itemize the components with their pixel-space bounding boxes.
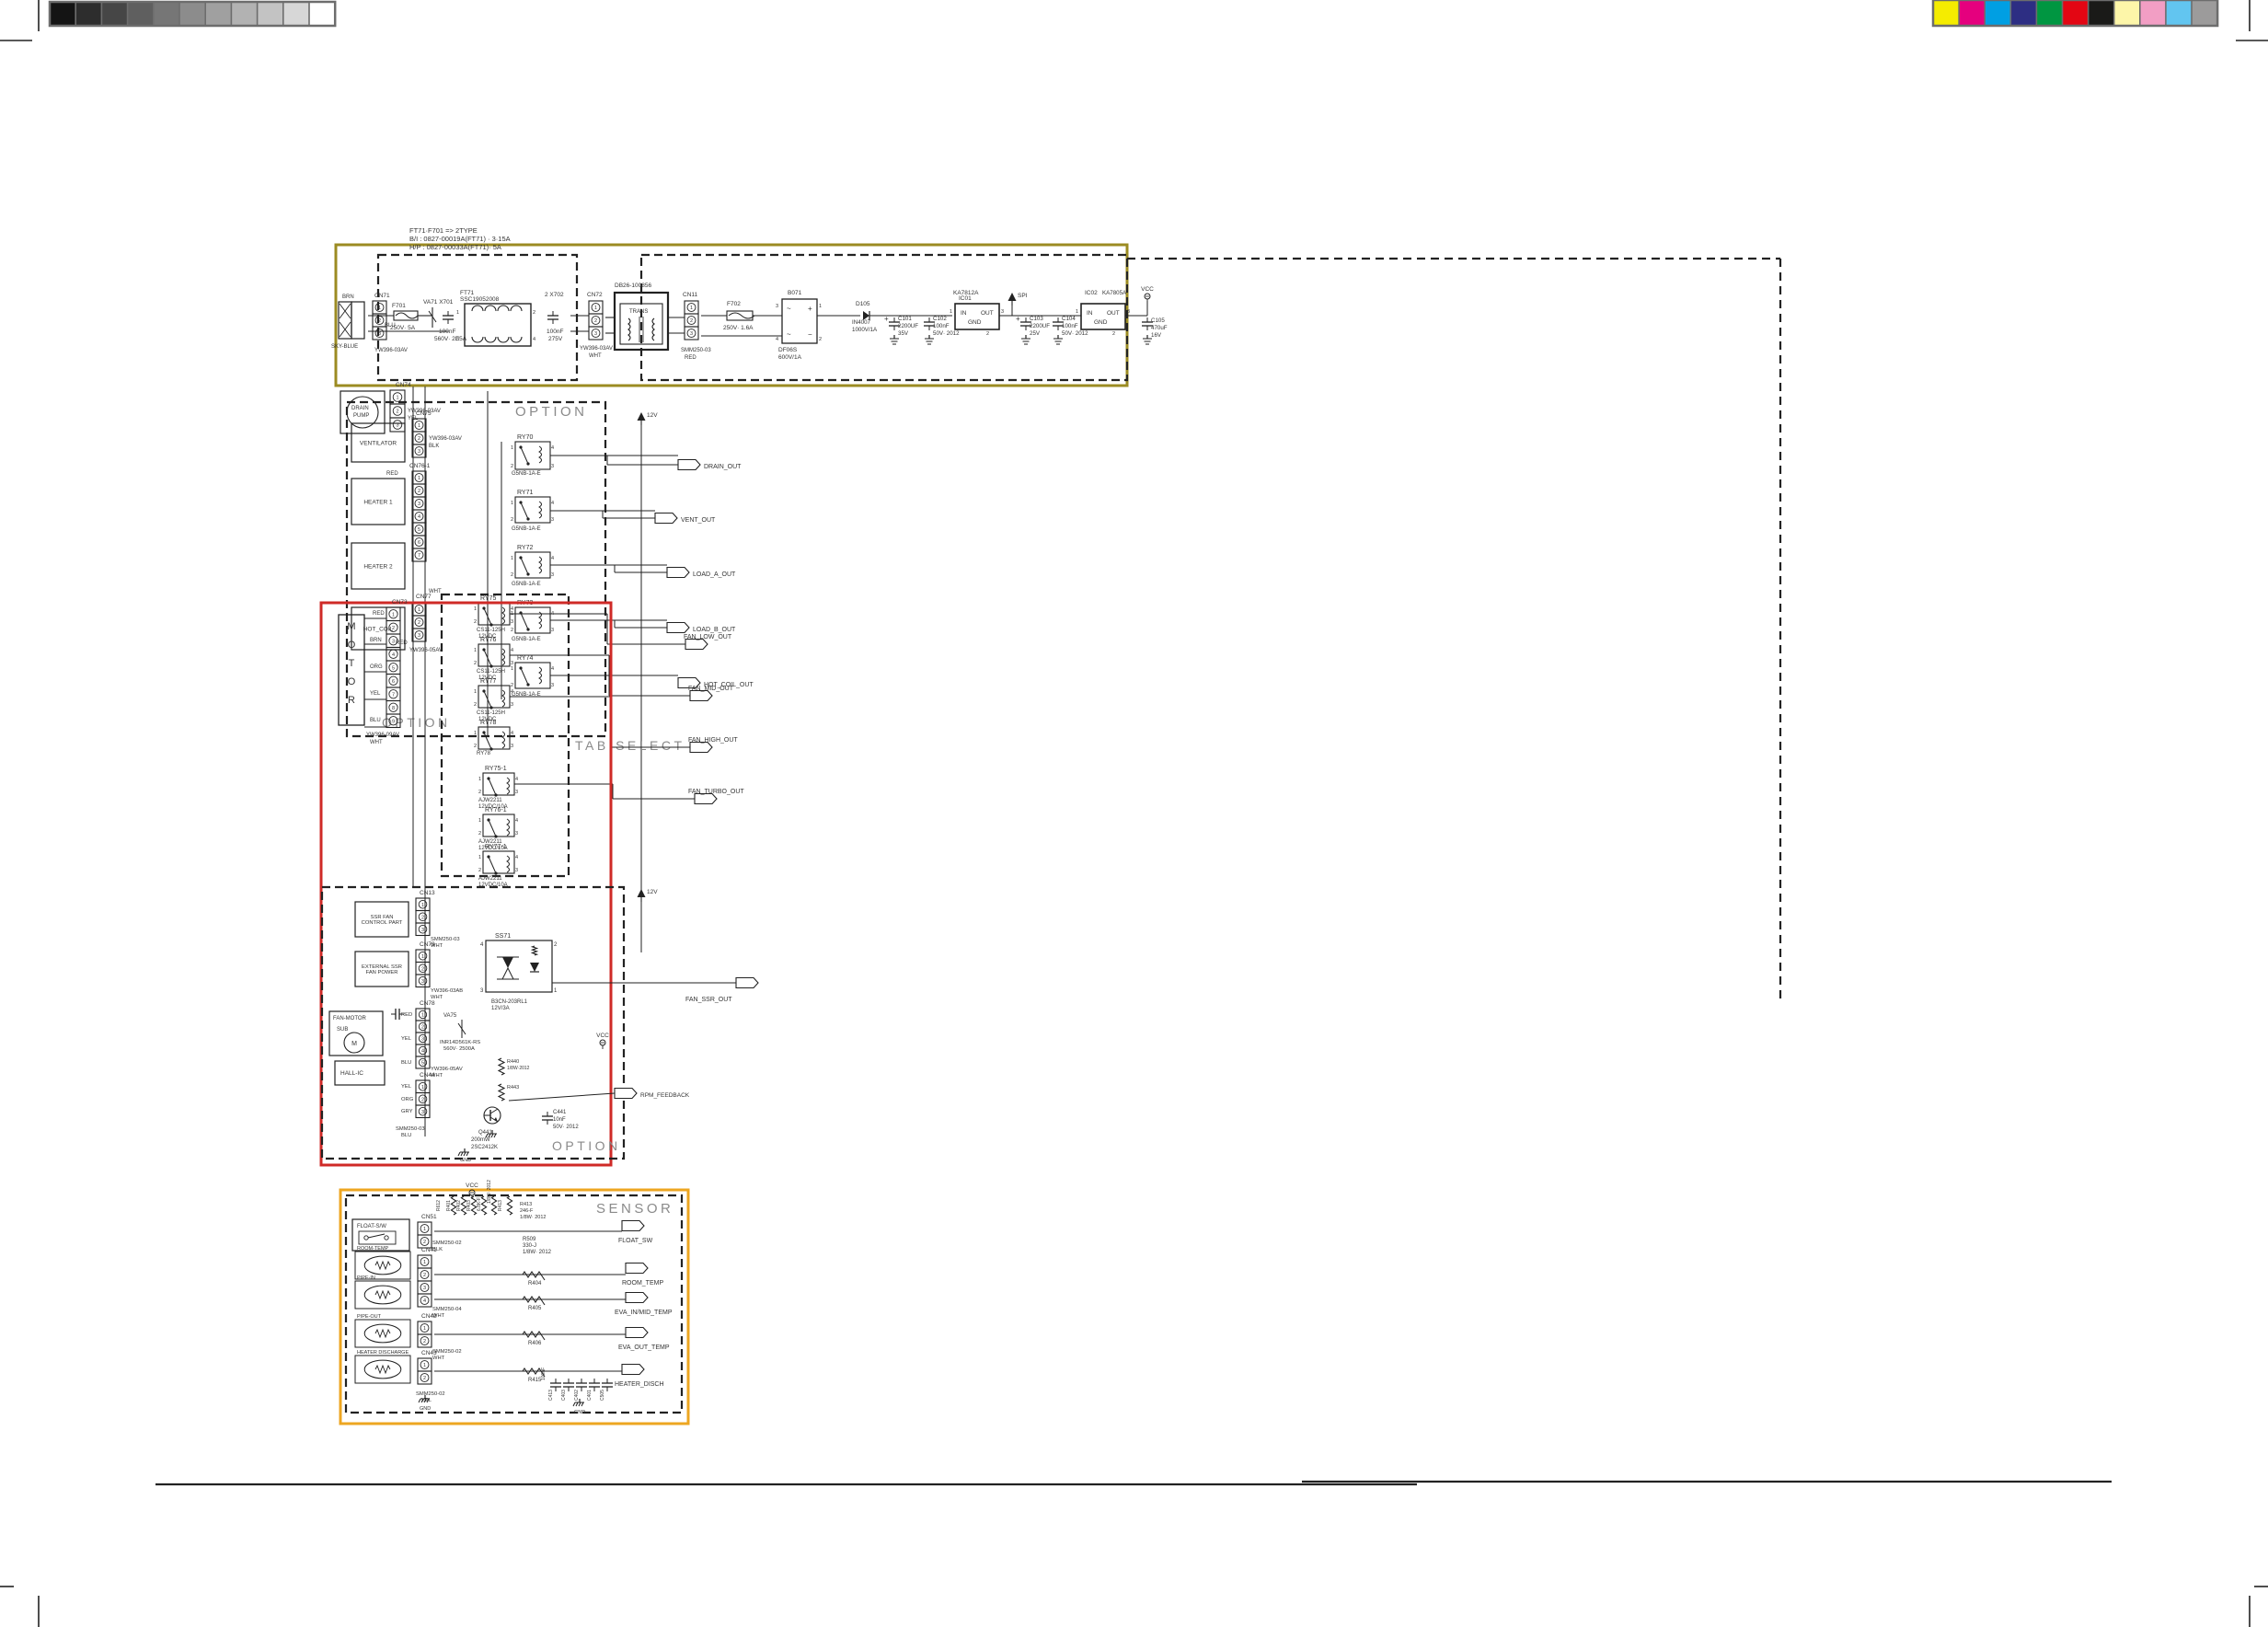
svg-text:4: 4 — [533, 337, 535, 342]
optocoupler SS71 — [486, 940, 552, 992]
svg-text:1/8W·2012: 1/8W·2012 — [507, 1066, 530, 1071]
svg-text:CN79: CN79 — [420, 941, 435, 948]
svg-text:LOAD_A_OUT: LOAD_A_OUT — [693, 571, 736, 578]
svg-text:1: 1 — [1076, 309, 1078, 315]
svg-text:1: 1 — [418, 423, 420, 429]
regulator IC02 KA7805A — [1081, 304, 1125, 329]
svg-text:5: 5 — [421, 1061, 424, 1067]
svg-text:C441: C441 — [553, 1110, 567, 1115]
flag LOAD_A_OUT — [667, 568, 689, 578]
svg-text:2: 2 — [511, 683, 513, 688]
svg-text:YW396-03AB: YW396-03AB — [431, 988, 463, 994]
transformer DB26-100856 — [615, 293, 668, 350]
svg-text:FAN_MID_OUT: FAN_MID_OUT — [688, 686, 734, 692]
svg-text:SMM250-04: SMM250-04 — [432, 1307, 462, 1312]
svg-text:T: T — [349, 658, 355, 669]
drain pump box — [340, 391, 385, 433]
svg-text:3: 3 — [511, 702, 513, 708]
svg-text:R509: R509 — [523, 1237, 536, 1242]
svg-text:WHT: WHT — [429, 589, 442, 594]
svg-text:C505: C505 — [600, 1390, 605, 1401]
svg-text:RY71: RY71 — [517, 490, 533, 496]
thermistor PIPE-IN — [355, 1281, 410, 1309]
svg-text:GND: GND — [574, 1410, 585, 1415]
svg-text:OPTION: OPTION — [515, 404, 588, 420]
svg-text:12V/3A: 12V/3A — [491, 1006, 510, 1011]
svg-text:50V· 2012: 50V· 2012 — [933, 330, 960, 337]
svg-text:3: 3 — [1127, 309, 1130, 315]
svg-text:PUMP: PUMP — [353, 413, 369, 419]
svg-text:HALL-IC: HALL-IC — [340, 1070, 363, 1077]
svg-text:HEATER_DISCH: HEATER_DISCH — [615, 1381, 664, 1388]
svg-text:2: 2 — [418, 620, 420, 626]
svg-text:4: 4 — [551, 501, 554, 506]
svg-text:5: 5 — [392, 665, 395, 671]
color calibration bar — [1933, 0, 1959, 26]
svg-text:VCC: VCC — [596, 1033, 609, 1039]
svg-text:CN13: CN13 — [420, 890, 435, 896]
svg-text:3: 3 — [551, 572, 554, 578]
ground q441 — [464, 1148, 466, 1152]
resistor R404 — [523, 1272, 545, 1280]
svg-text:M: M — [347, 621, 355, 632]
svg-text:35V: 35V — [898, 330, 909, 337]
svg-text:2: 2 — [478, 868, 481, 873]
flag VENT_OUT — [655, 513, 677, 524]
svg-text:RY70: RY70 — [517, 434, 533, 441]
svg-text:3: 3 — [515, 790, 518, 795]
resistor R415 — [523, 1368, 545, 1377]
svg-text:SSC19052008: SSC19052008 — [460, 296, 500, 303]
svg-text:2: 2 — [474, 744, 477, 749]
svg-text:VA75: VA75 — [443, 1013, 457, 1019]
flag FAN_MID_OUT — [690, 691, 712, 701]
capacitor C101 — [893, 317, 895, 322]
svg-text:FAN-MOTOR: FAN-MOTOR — [333, 1016, 367, 1021]
bridge rectifier B071 — [782, 299, 817, 343]
wire bus CN75 column — [412, 387, 414, 888]
relay RY78 — [478, 727, 510, 749]
capacitor C104 — [1057, 317, 1059, 322]
svg-text:VCC: VCC — [1141, 286, 1154, 293]
svg-text:CS11-125H: CS11-125H — [477, 628, 505, 633]
svg-text:600V/1A: 600V/1A — [778, 354, 802, 361]
svg-text:ROOM_TEMP: ROOM_TEMP — [622, 1280, 663, 1287]
capacitor C102 — [928, 317, 930, 322]
svg-text:3: 3 — [421, 979, 424, 985]
svg-text:2: 2 — [511, 572, 513, 578]
svg-text:VENT_OUT: VENT_OUT — [681, 517, 716, 524]
svg-text:2: 2 — [423, 1273, 426, 1278]
svg-text:B3CN-203RL1: B3CN-203RL1 — [491, 999, 528, 1005]
capacitor fan — [391, 1013, 396, 1015]
svg-text:EVA_OUT_TEMP: EVA_OUT_TEMP — [618, 1344, 670, 1351]
svg-text:CS11-125H: CS11-125H — [477, 710, 505, 716]
svg-text:CN71: CN71 — [374, 293, 390, 299]
relay RY76 — [478, 644, 510, 666]
svg-text:1: 1 — [421, 1013, 424, 1019]
svg-text:3: 3 — [378, 331, 381, 337]
svg-text:R612: R612 — [436, 1200, 442, 1211]
svg-text:246-F: 246-F — [520, 1208, 534, 1214]
svg-text:B/I : 0827-00019A(FT71) · 3·15: B/I : 0827-00019A(FT71) · 3·15A — [409, 235, 511, 243]
flag ROOM_TEMP — [626, 1264, 648, 1274]
svg-text:1: 1 — [511, 501, 513, 506]
svg-text:GRY: GRY — [401, 1109, 413, 1114]
svg-text:250V· 5A: 250V· 5A — [390, 325, 416, 331]
svg-text:1: 1 — [423, 1326, 426, 1332]
svg-text:1/8W· 2012: 1/8W· 2012 — [487, 1180, 492, 1204]
wire power rail — [368, 315, 394, 317]
box EXTERNAL SSR FAN POWER — [355, 952, 409, 987]
svg-text:R413: R413 — [520, 1202, 532, 1207]
connector CN51 — [418, 1222, 432, 1235]
svg-text:1: 1 — [423, 1227, 426, 1232]
connector CN79 — [416, 950, 430, 963]
svg-text:250V· 1.6A: 250V· 1.6A — [723, 325, 754, 331]
svg-text:O: O — [348, 676, 356, 687]
svg-text:2: 2 — [474, 619, 477, 625]
svg-text:25V: 25V — [1030, 330, 1041, 337]
svg-text:CN44: CN44 — [420, 1072, 435, 1079]
svg-text:FAN_TURBO_OUT: FAN_TURBO_OUT — [688, 789, 744, 795]
svg-text:YW396-03AV: YW396-03AV — [429, 436, 462, 442]
svg-text:4: 4 — [392, 652, 395, 658]
svg-text:2: 2 — [418, 489, 420, 494]
capacitor C441 — [547, 1112, 548, 1116]
svg-text:R403: R403 — [466, 1200, 472, 1211]
svg-text:HEATER DISCHARGE: HEATER DISCHARGE — [357, 1350, 409, 1356]
svg-text:RY74: RY74 — [517, 655, 533, 662]
connector CN78 — [416, 1009, 430, 1021]
svg-text:CN77: CN77 — [416, 594, 432, 600]
varistor VA71 — [432, 307, 433, 328]
TAB SELECT dashed box — [442, 594, 569, 876]
flag HOT_COIL_OUT — [678, 678, 700, 688]
flag DRAIN_OUT — [678, 460, 700, 470]
svg-text:PIPE-OUT: PIPE-OUT — [357, 1314, 382, 1320]
svg-text:RY76-1: RY76-1 — [485, 807, 507, 813]
svg-text:SKY-BLUE: SKY-BLUE — [331, 344, 358, 350]
svg-text:4: 4 — [551, 556, 554, 561]
svg-text:G5NB-1A-E: G5NB-1A-E — [512, 471, 541, 477]
relay RY75 — [478, 603, 510, 625]
svg-text:3: 3 — [421, 1037, 424, 1043]
svg-text:1: 1 — [511, 666, 513, 672]
svg-text:2: 2 — [511, 628, 513, 633]
fuse F702 — [727, 311, 753, 320]
capacitor X702 — [552, 311, 554, 316]
svg-text:3: 3 — [418, 449, 420, 455]
svg-text:50V· 2012: 50V· 2012 — [1062, 330, 1088, 337]
svg-text:CN78: CN78 — [420, 1000, 435, 1007]
relay RY71 — [515, 497, 550, 523]
svg-text:560V· 2E5A: 560V· 2E5A — [434, 336, 467, 342]
diode D105 — [863, 311, 869, 320]
svg-text:12V: 12V — [647, 412, 658, 419]
svg-text:C413: C413 — [548, 1390, 554, 1401]
svg-text:H/P : 0827-00033A(FT71)· 5A: H/P : 0827-00033A(FT71)· 5A — [409, 243, 501, 251]
svg-text:YW396-03AV: YW396-03AV — [580, 346, 613, 352]
flag FAN_HIGH_OUT — [690, 743, 712, 753]
svg-text:YEL: YEL — [401, 1036, 412, 1042]
12V arrow SPI — [1008, 293, 1017, 301]
bottom horizontal rule — [155, 1483, 1417, 1485]
flag HEATER_DISCH — [622, 1365, 644, 1375]
svg-text:4: 4 — [511, 731, 513, 736]
SENSOR section orange box — [340, 1190, 688, 1424]
12V rail vertical — [640, 425, 642, 952]
svg-text:R401: R401 — [446, 1200, 452, 1211]
svg-text:BRN: BRN — [370, 638, 382, 643]
ground sensor — [579, 1399, 581, 1402]
line filter FT71 — [465, 304, 531, 346]
svg-text:CS11-125H: CS11-125H — [477, 669, 505, 675]
svg-text:1: 1 — [511, 445, 513, 451]
svg-text:C105: C105 — [1151, 317, 1165, 324]
svg-text:3: 3 — [551, 464, 554, 469]
svg-text:FT71·F701 => 2TYPE: FT71·F701 => 2TYPE — [409, 226, 478, 235]
relay RY73 — [515, 607, 550, 633]
svg-text:2: 2 — [1112, 331, 1115, 337]
svg-text:3: 3 — [515, 868, 518, 873]
svg-text:OPTION: OPTION — [552, 1138, 621, 1153]
svg-text:2200UF: 2200UF — [1030, 323, 1050, 329]
svg-text:CN74: CN74 — [396, 382, 411, 388]
capacitor C105 — [1146, 317, 1148, 322]
svg-text:2: 2 — [396, 410, 398, 415]
svg-text:R: R — [348, 695, 355, 706]
svg-text:RY76: RY76 — [480, 637, 496, 643]
svg-text:LOAD_B_OUT: LOAD_B_OUT — [693, 627, 736, 633]
svg-text:CN75: CN75 — [416, 410, 432, 417]
svg-text:SMM250-03: SMM250-03 — [396, 1126, 425, 1132]
svg-text:YW396-09AV: YW396-09AV — [366, 733, 399, 738]
svg-text:2: 2 — [986, 331, 989, 337]
dashed net boundary line vertical — [1779, 259, 1781, 998]
svg-text:IC01: IC01 — [959, 295, 972, 302]
svg-text:1: 1 — [819, 304, 822, 309]
svg-text:16V: 16V — [1151, 332, 1162, 339]
svg-text:R415: R415 — [528, 1378, 542, 1383]
svg-text:4: 4 — [418, 514, 420, 520]
svg-text:+: + — [1016, 315, 1020, 323]
svg-text:3: 3 — [456, 337, 459, 342]
svg-text:4: 4 — [511, 689, 513, 695]
svg-text:1: 1 — [392, 612, 395, 617]
box HALL-IC — [335, 1061, 385, 1085]
svg-text:IN: IN — [1087, 310, 1093, 317]
svg-text:WHT: WHT — [589, 353, 602, 359]
svg-text:D105: D105 — [856, 301, 870, 307]
svg-text:2: 2 — [478, 790, 481, 795]
svg-text:1: 1 — [478, 777, 481, 782]
svg-text:AJW2211: AJW2211 — [478, 798, 502, 803]
svg-text:ORG: ORG — [401, 1097, 414, 1102]
thermistor ROOM-TEMP — [355, 1252, 410, 1279]
svg-text:WHT: WHT — [370, 740, 383, 745]
svg-text:3: 3 — [392, 639, 395, 644]
svg-text:7: 7 — [418, 553, 420, 559]
svg-text:1: 1 — [478, 818, 481, 824]
svg-text:3: 3 — [511, 661, 513, 666]
svg-text:BRN: BRN — [342, 294, 354, 300]
flag FLOAT_SW — [622, 1221, 644, 1231]
svg-text:−: − — [808, 330, 812, 339]
sensor pullup resistors — [451, 1196, 455, 1215]
svg-text:EVA_IN/MID_TEMP: EVA_IN/MID_TEMP — [615, 1310, 673, 1316]
load box VENTILATOR — [351, 423, 405, 462]
svg-text:2: 2 — [594, 318, 597, 324]
svg-text:2: 2 — [421, 1097, 424, 1102]
svg-text:KA7805A: KA7805A — [1102, 290, 1127, 296]
svg-text:2: 2 — [819, 337, 822, 342]
svg-text:6: 6 — [392, 679, 395, 685]
svg-text:C102: C102 — [933, 316, 947, 322]
svg-text:SUB: SUB — [337, 1027, 348, 1033]
svg-text:FAN_LOW_OUT: FAN_LOW_OUT — [684, 634, 732, 640]
regulator IC01 KA7812A — [955, 304, 999, 329]
varistor VA75 — [461, 1020, 463, 1038]
svg-text:G5NB-1A-E: G5NB-1A-E — [512, 582, 541, 587]
svg-text:1: 1 — [474, 731, 477, 736]
svg-text:6.8K-F: 6.8K-F — [477, 1197, 482, 1211]
svg-text:FLOAT_SW: FLOAT_SW — [618, 1238, 653, 1244]
svg-text:2: 2 — [474, 661, 477, 666]
flag EVA_IN/MID_TEMP — [626, 1293, 648, 1303]
svg-text:R402: R402 — [456, 1200, 462, 1211]
svg-text:~: ~ — [787, 305, 791, 313]
resistor R406 — [523, 1332, 545, 1340]
resistor R405 — [523, 1297, 545, 1305]
svg-text:1: 1 — [423, 1363, 426, 1368]
svg-text:10nF: 10nF — [553, 1117, 566, 1123]
svg-text:YEL: YEL — [401, 1084, 412, 1090]
svg-text:1: 1 — [474, 606, 477, 612]
svg-text:RY72: RY72 — [517, 545, 533, 551]
svg-text:3: 3 — [511, 619, 513, 625]
svg-text:50V· 2012: 50V· 2012 — [553, 1125, 579, 1130]
svg-text:7: 7 — [392, 692, 395, 698]
svg-text:R405: R405 — [528, 1306, 542, 1311]
svg-text:SMM250-02: SMM250-02 — [432, 1349, 462, 1355]
svg-text:IN: IN — [961, 310, 967, 317]
svg-text:4: 4 — [776, 337, 778, 342]
svg-text:FAN_SSR_OUT: FAN_SSR_OUT — [685, 997, 732, 1003]
svg-text:C401: C401 — [587, 1390, 593, 1401]
svg-text:R443: R443 — [507, 1085, 519, 1090]
svg-text:B071: B071 — [788, 290, 802, 296]
power inner dashed box left — [378, 255, 577, 380]
svg-text:6: 6 — [418, 540, 420, 546]
svg-text:4: 4 — [515, 777, 518, 782]
svg-text:2: 2 — [421, 915, 424, 920]
svg-text:2: 2 — [423, 1240, 426, 1245]
svg-text:3: 3 — [421, 928, 424, 933]
svg-text:RY78: RY78 — [480, 720, 496, 726]
load box HOT_COIL — [351, 607, 405, 650]
svg-text:100nF: 100nF — [933, 323, 950, 329]
svg-text:CN73: CN73 — [392, 599, 408, 606]
OPTION dashed box 2 SSR — [322, 887, 624, 1159]
svg-text:+: + — [884, 315, 889, 323]
svg-text:1: 1 — [421, 954, 424, 960]
flag FAN_SSR_OUT — [736, 978, 758, 988]
transistor Q441 — [484, 1107, 501, 1124]
svg-text:FAN POWER: FAN POWER — [366, 970, 398, 975]
ground sensor2 — [424, 1395, 426, 1399]
svg-text:OUT: OUT — [1107, 310, 1120, 317]
svg-text:2: 2 — [418, 436, 420, 442]
svg-text:100nF: 100nF — [541, 1367, 547, 1380]
svg-text:DRAIN_OUT: DRAIN_OUT — [704, 464, 742, 470]
svg-text:C403: C403 — [561, 1390, 567, 1401]
svg-text:1: 1 — [474, 689, 477, 695]
AC terminal block — [339, 302, 351, 339]
relay RY77-1 — [483, 851, 514, 873]
svg-text:R404: R404 — [528, 1281, 542, 1287]
svg-text:470uF: 470uF — [1151, 325, 1168, 331]
svg-text:BLU: BLU — [370, 718, 381, 723]
svg-text:RED: RED — [685, 355, 697, 361]
svg-text:CN42: CN42 — [421, 1313, 437, 1320]
flag FAN_LOW_OUT — [685, 640, 708, 650]
svg-text:2200UF: 2200UF — [898, 323, 918, 329]
svg-text:VENTILATOR: VENTILATOR — [360, 440, 397, 446]
box FLOAT-S/W — [352, 1219, 409, 1251]
svg-text:F702: F702 — [727, 301, 741, 307]
svg-text:100nF: 100nF — [1062, 323, 1078, 329]
svg-text:KA7812A: KA7812A — [953, 290, 979, 296]
svg-text:VCC: VCC — [466, 1183, 478, 1189]
relay RY70 — [515, 442, 550, 469]
svg-text:1: 1 — [456, 310, 459, 316]
svg-text:Q441: Q441 — [478, 1130, 492, 1136]
flag EVA_OUT_TEMP — [626, 1328, 648, 1338]
svg-text:C103: C103 — [1030, 316, 1043, 322]
svg-text:275V: 275V — [548, 336, 563, 342]
svg-text:SMM250-02: SMM250-02 — [416, 1391, 445, 1397]
svg-text:R440: R440 — [507, 1059, 519, 1065]
svg-text:R406: R406 — [528, 1341, 542, 1346]
svg-text:CONTROL PART: CONTROL PART — [362, 920, 403, 926]
svg-text:12V: 12V — [647, 889, 658, 895]
svg-text:3: 3 — [511, 744, 513, 749]
svg-text:F701: F701 — [392, 303, 406, 309]
svg-text:560V· 2500A: 560V· 2500A — [443, 1046, 475, 1052]
relay RY72 — [515, 552, 550, 578]
connector CN74 — [390, 390, 405, 404]
connector CN11 — [685, 301, 698, 314]
connector CN77 — [412, 603, 426, 616]
svg-text:CN72: CN72 — [587, 292, 603, 298]
svg-text:RY77: RY77 — [480, 678, 496, 685]
svg-text:8: 8 — [392, 706, 395, 711]
connector CN73 — [386, 607, 400, 621]
svg-text:1000V/1A: 1000V/1A — [852, 327, 878, 333]
svg-text:BLK: BLK — [429, 444, 439, 449]
svg-text:2: 2 — [511, 517, 513, 523]
svg-text:3: 3 — [515, 831, 518, 837]
connector CN76 relay — [412, 471, 426, 484]
svg-text:1/8W· 2012: 1/8W· 2012 — [520, 1215, 546, 1220]
svg-text:3: 3 — [418, 633, 420, 639]
svg-text:9: 9 — [392, 719, 395, 724]
svg-text:R413: R413 — [498, 1200, 503, 1211]
svg-text:3: 3 — [421, 1110, 424, 1115]
svg-text:PIPE-IN: PIPE-IN — [357, 1275, 375, 1281]
svg-text:DB26-100856: DB26-100856 — [615, 283, 651, 289]
